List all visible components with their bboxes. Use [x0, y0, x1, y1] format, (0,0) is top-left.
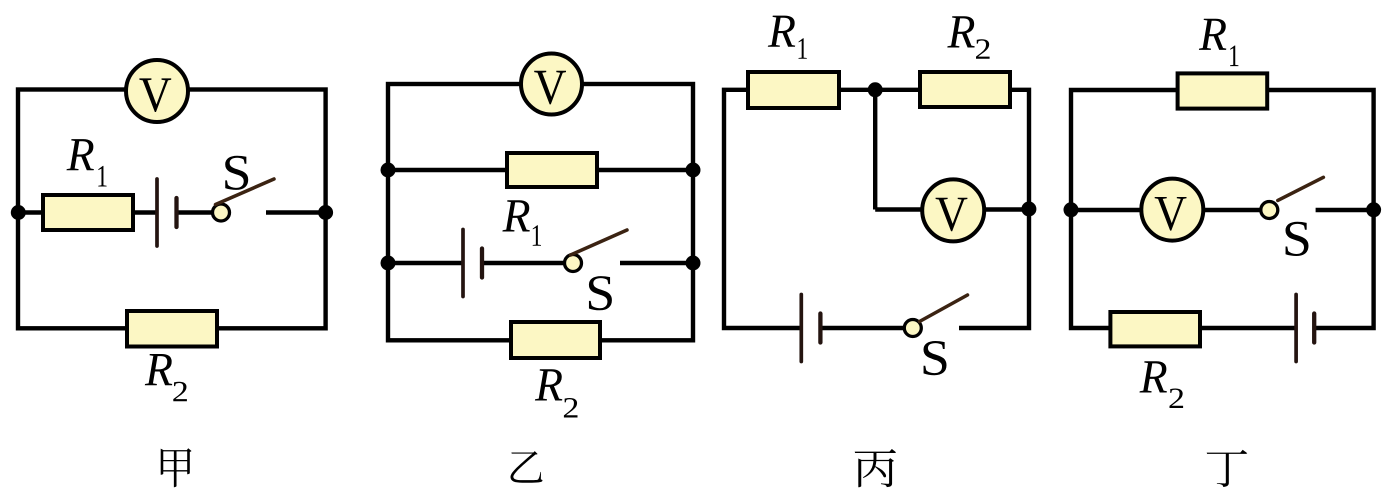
- voltmeter V circuit 1: [126, 60, 188, 122]
- wire outer loop circuit 3: [724, 90, 1029, 328]
- wire middle branch left segment circuit 1: [18, 210, 157, 214]
- voltmeter V circuit 4: [1141, 179, 1203, 241]
- switch S circuit 1: [213, 179, 275, 221]
- battery cell circuit 3: [801, 295, 820, 362]
- label R2 circuit 4: [1140, 361, 1184, 408]
- wire middle left segment circuit 4: [1071, 208, 1143, 212]
- wire junction vertical circuit 3: [873, 90, 877, 210]
- wire middle right segment circuit 4: [1316, 208, 1374, 212]
- battery cell circuit 2: [463, 230, 482, 297]
- wire battery-to-switch segment circuit 3: [820, 326, 905, 330]
- label R1 circuit 4: [1199, 19, 1238, 66]
- node dot junction circuit 3: [868, 82, 883, 97]
- wire row2 circuit 2: [388, 168, 693, 172]
- battery cell circuit 4: [1296, 295, 1314, 362]
- resistor R1 circuit 2: [507, 153, 597, 187]
- label S circuit 4: [1286, 222, 1309, 256]
- caption bing circuit 3: [855, 449, 896, 487]
- node dot row3 right circuit 2: [686, 256, 701, 271]
- wire outer loop circuit 4: [1071, 90, 1374, 328]
- label R1 circuit 2: [502, 200, 541, 245]
- label S circuit 2: [589, 276, 612, 310]
- node dot row2 left circuit 2: [381, 163, 396, 178]
- resistor R1 circuit 3: [748, 72, 839, 108]
- voltmeter V circuit 3: [922, 179, 984, 241]
- label S circuit 1: [225, 156, 248, 190]
- voltmeter V circuit 2: [521, 54, 582, 115]
- resistor R1 circuit 1: [43, 195, 133, 230]
- caption jia circuit 1: [161, 448, 192, 487]
- node dot right circuit 3: [1021, 202, 1036, 217]
- label R2 circuit 2: [535, 369, 578, 417]
- wire voltmeter left segment circuit 3: [875, 207, 925, 211]
- label R1 circuit 3: [768, 16, 807, 59]
- node dot left circuit 4: [1064, 202, 1079, 217]
- wire voltmeter-to-switch segment circuit 4: [1201, 208, 1263, 212]
- wire battery-to-switch segment circuit 2: [482, 261, 566, 265]
- switch S circuit 3: [904, 295, 967, 337]
- wire row3 left segment circuit 2: [388, 261, 463, 265]
- label R2 circuit 3: [947, 16, 989, 58]
- label R1 circuit 1: [67, 139, 107, 186]
- resistor R1 circuit 4: [1178, 73, 1268, 108]
- wire outer loop circuit 1: [18, 90, 326, 329]
- node dot left circuit 1: [11, 205, 26, 220]
- node dot row3 left circuit 2: [381, 256, 396, 271]
- resistor R2 circuit 1: [127, 311, 217, 347]
- switch S circuit 2: [565, 230, 628, 272]
- node dot right circuit 1: [318, 205, 333, 220]
- switch S circuit 4: [1261, 177, 1324, 218]
- battery cell circuit 1: [157, 179, 177, 246]
- label R2 circuit 1: [145, 354, 187, 401]
- label S circuit 3: [924, 341, 947, 375]
- wire battery-to-switch segment circuit 1: [177, 210, 215, 214]
- resistor R2 circuit 3: [920, 72, 1010, 107]
- wire outer loop circuit 2: [388, 84, 693, 340]
- caption ding circuit 4: [1207, 450, 1247, 487]
- wire row3 right segment circuit 2: [620, 261, 693, 265]
- wire voltmeter right segment circuit 3: [981, 207, 1029, 211]
- wire middle branch right segment circuit 1: [266, 210, 326, 214]
- node dot row2 right circuit 2: [686, 163, 701, 178]
- node dot right circuit 4: [1366, 202, 1381, 217]
- resistor R2 circuit 2: [511, 322, 600, 358]
- caption yi circuit 2: [511, 451, 543, 483]
- resistor R2 circuit 4: [1110, 312, 1200, 346]
